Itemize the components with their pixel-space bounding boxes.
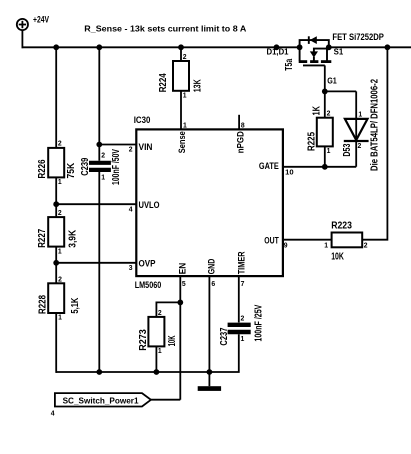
power supply +24V symbol [17,15,50,31]
junction bottom rail C239 [96,369,102,375]
junction GATE/R225 [322,164,328,170]
svg-text:75K: 75K [66,163,77,179]
svg-text:10: 10 [285,168,294,177]
svg-text:1: 1 [58,177,62,186]
svg-text:EN: EN [178,263,189,275]
svg-text:3,9K: 3,9K [67,230,78,248]
svg-text:D1,D1: D1,D1 [267,47,290,56]
svg-text:2: 2 [364,241,368,250]
svg-text:1: 1 [327,146,331,155]
svg-text:1: 1 [183,120,187,129]
svg-text:GATE: GATE [259,161,279,172]
svg-text:100nF /25V: 100nF /25V [253,304,264,341]
svg-text:2: 2 [241,313,245,322]
junction top rail right column [385,44,391,50]
svg-text:R228: R228 [38,295,49,314]
svg-text:Die BAT54LP/ DFN1006-2: Die BAT54LP/ DFN1006-2 [370,79,381,171]
svg-text:9: 9 [284,240,288,249]
flag SC_Switch_Power1 [51,393,151,417]
svg-text:Sense: Sense [177,131,188,153]
wire R228 to bottom rail [55,313,57,373]
svg-text:OUT: OUT [264,235,279,246]
svg-text:2: 2 [129,145,133,154]
svg-text:S1: S1 [334,47,344,56]
svg-text:10K: 10K [331,251,344,262]
capacitor C239 [80,149,122,185]
node G1 [322,76,338,94]
junction top rail at C239 column [96,44,102,50]
wire UVLO [56,203,136,205]
svg-text:LM5060: LM5060 [135,280,162,291]
wire C239 column top [98,47,100,160]
junction top rail at R224 column [178,44,184,50]
svg-text:1: 1 [358,110,362,119]
svg-text:+24V: +24V [33,15,49,26]
resistor R224 [158,47,203,99]
svg-text:R227: R227 [37,229,48,248]
wire R226-R227 [55,177,57,217]
junction OVP tap [53,260,59,266]
wire +24V drop [21,30,23,48]
wire R227-R228 [55,247,57,284]
svg-text:1: 1 [58,312,62,321]
svg-text:SC_Switch_Power1: SC_Switch_Power1 [63,395,139,405]
svg-text:5,1K: 5,1K [70,298,81,314]
wire C237 bottom [209,334,238,372]
resistor R273 [138,308,178,355]
svg-text:R_Sense - 13k sets current lim: R_Sense - 13k sets current limit to 8 A [84,24,246,34]
svg-text:R223: R223 [331,220,352,231]
svg-text:10K: 10K [167,335,178,346]
wire bottom rail [56,371,209,373]
wire C239 column bottom [98,172,100,372]
wire EN column [179,276,181,400]
junction bottom rail R273 [154,369,160,375]
resistor R226 [37,139,77,186]
capacitor C237 [219,304,264,345]
junction FET right [326,44,332,50]
svg-text:4: 4 [129,204,134,213]
svg-text:3: 3 [129,263,133,272]
svg-text:5: 5 [182,279,186,288]
wire top rail right [329,46,411,48]
svg-text:T5a: T5a [284,58,295,70]
wire G1 to diode [325,90,356,92]
svg-text:OVP: OVP [139,259,157,270]
svg-text:IC30: IC30 [134,115,151,126]
svg-text:GND: GND [206,259,217,275]
svg-text:1: 1 [158,346,162,355]
svg-text:2: 2 [101,151,105,160]
ground [198,386,221,391]
wire R273 bottom [155,346,157,372]
svg-text:TIMER: TIMER [237,251,248,274]
svg-text:2: 2 [58,274,62,283]
svg-text:2: 2 [358,141,362,150]
svg-text:G1: G1 [327,76,337,85]
svg-text:2: 2 [183,52,187,61]
node D1,D1 [267,44,290,56]
resistor R227 [37,208,79,255]
wire R225 bottom to GATE wire [324,146,326,166]
wire OVP [56,262,136,264]
wire R223 right to top rail [362,47,387,239]
wire diode column [355,91,357,166]
svg-text:R224: R224 [158,73,169,92]
svg-text:D53: D53 [342,143,353,156]
transistor T5a (FET Si7252DP) [284,36,332,71]
wire VIN [99,144,136,146]
svg-text:1: 1 [101,173,105,182]
IC30 LM5060 box [129,115,294,291]
wire nPGD stub [238,115,240,130]
svg-text:13K: 13K [192,79,203,92]
wire GATE [283,166,356,168]
svg-text:R226: R226 [37,159,48,178]
junction EN/R273 [177,300,183,306]
junction UVLO tap [53,201,59,207]
junction FET left [297,44,303,50]
wire R224 to Sense pin [180,91,182,130]
svg-text:2: 2 [327,109,331,118]
svg-text:FET Si7252DP: FET Si7252DP [332,32,384,43]
svg-text:C237: C237 [219,328,230,346]
svg-text:100nF /50V: 100nF /50V [111,149,122,185]
svg-text:nPGD: nPGD [236,131,247,153]
svg-text:2: 2 [158,308,162,317]
wire OUT [283,239,332,241]
wire left column R226 top [55,47,57,148]
diode D53 [342,110,368,157]
svg-text:1: 1 [58,246,62,255]
svg-text:4: 4 [51,408,56,417]
svg-text:8: 8 [241,120,245,129]
svg-text:6: 6 [211,279,215,288]
svg-text:1: 1 [183,91,187,100]
junction VIN tap [96,142,102,148]
svg-text:1: 1 [324,241,328,250]
resistor R225 [307,106,333,155]
junction bottom rail GND [207,369,213,375]
svg-text:R273: R273 [138,329,149,351]
svg-text:1K: 1K [312,106,323,116]
svg-text:UVLO: UVLO [139,200,160,211]
svg-text:R225: R225 [307,132,318,151]
svg-text:VIN: VIN [139,142,153,153]
resistor R223 [324,220,367,262]
svg-text:7: 7 [241,279,245,288]
junction top rail at R226 column [53,44,59,50]
svg-text:C239: C239 [80,157,91,175]
wire TIMER column [238,276,240,322]
svg-text:1: 1 [241,334,245,343]
wire R273 tap [156,302,180,317]
wire gate drop [324,65,326,118]
svg-text:2: 2 [58,139,62,148]
wire GND column [208,276,210,386]
wire flag to EN [151,399,180,401]
svg-text:2: 2 [58,208,62,217]
resistor R228 [38,274,81,321]
wire top rail left [22,46,300,48]
